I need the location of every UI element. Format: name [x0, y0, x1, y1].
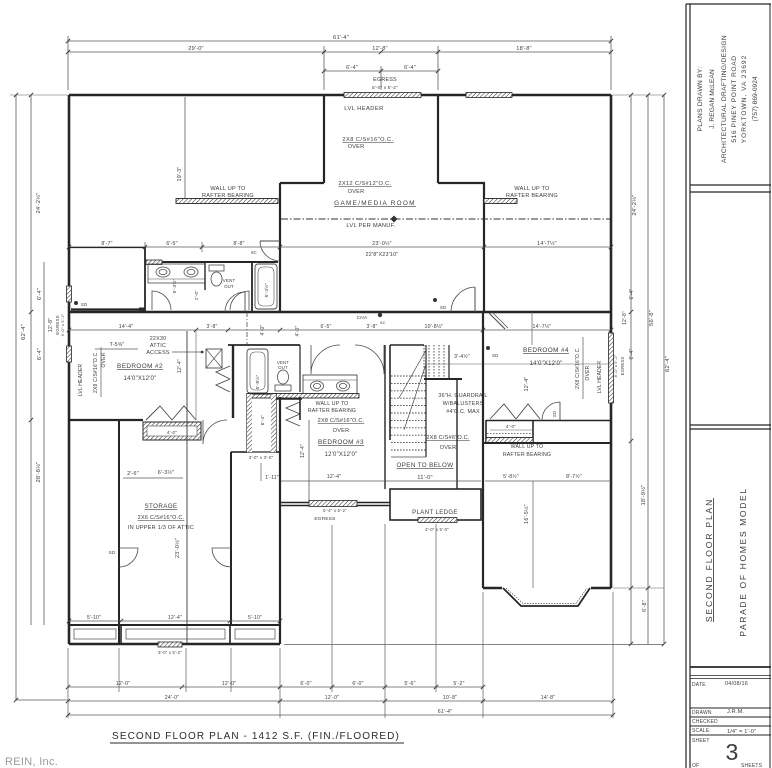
smoke detector bedroom4	[486, 346, 490, 350]
bedroom2 bottom wall	[69, 419, 143, 421]
bedroom2 door arc	[203, 420, 227, 444]
door arc into right wing	[451, 287, 475, 312]
bedroom2 closet bifold vertical	[216, 366, 230, 392]
top wall	[69, 94, 611, 97]
svg-text:6'-0" x 5'-2": 6'-0" x 5'-2"	[60, 313, 65, 336]
svg-text:19'-3": 19'-3"	[177, 167, 183, 182]
svg-text:OVER: OVER	[585, 365, 591, 380]
angled door to stair hall	[489, 313, 505, 329]
attic access hatch square	[206, 349, 222, 368]
svg-text:62'-4": 62'-4"	[21, 324, 27, 340]
svg-text:(757) 869-0924: (757) 869-0924	[752, 76, 759, 121]
svg-text:12'-0": 12'-0"	[222, 681, 236, 687]
svg-text:36"H. GUARDRAIL: 36"H. GUARDRAIL	[438, 393, 487, 399]
svg-text:LVL PER MANUF.: LVL PER MANUF.	[346, 223, 395, 229]
svg-text:23'-0½": 23'-0½"	[372, 240, 392, 247]
svg-text:ACCESS: ACCESS	[146, 350, 170, 356]
svg-text:22'8"X23'10": 22'8"X23'10"	[366, 252, 399, 258]
left dimension lines	[15, 95, 17, 700]
door arc game room to attic room	[260, 240, 280, 242]
storage dim row	[123, 477, 183, 479]
svg-text:6'-4": 6'-4"	[404, 65, 416, 71]
window seat cabinet	[143, 422, 201, 440]
info rows	[690, 707, 771, 709]
svg-text:BEDROOM #4: BEDROOM #4	[523, 347, 569, 354]
svg-text:EGRESS: EGRESS	[620, 357, 625, 376]
svg-text:12'-4": 12'-4"	[168, 615, 182, 621]
double vanity	[303, 375, 357, 395]
rafter bearing wall hatch mid bath	[247, 394, 359, 399]
svg-text:5'-3½": 5'-3½"	[171, 279, 178, 294]
svg-text:12'-8": 12'-8"	[622, 311, 628, 325]
svg-text:WALL UP TO: WALL UP TO	[316, 401, 349, 407]
svg-text:12'0"X12'0": 12'0"X12'0"	[325, 452, 358, 458]
svg-text:5'-8½": 5'-8½"	[254, 375, 261, 390]
stair diagonal	[399, 350, 426, 398]
bath door arcs	[152, 291, 171, 310]
top dimension row 1 (61'-4")	[68, 40, 611, 42]
svg-text:6'-5": 6'-5"	[166, 241, 177, 247]
svg-text:6'-4": 6'-4"	[629, 349, 635, 360]
svg-text:CHECKED: CHECKED	[692, 719, 718, 725]
svg-text:24'-2½": 24'-2½"	[631, 194, 638, 215]
svg-text:1'-11": 1'-11"	[265, 475, 279, 481]
left room dim row	[69, 246, 280, 248]
svg-text:OVER: OVER	[101, 352, 107, 367]
svg-text:SD: SD	[109, 550, 116, 555]
svg-text:WALL UP TO: WALL UP TO	[514, 186, 550, 192]
svg-text:ARCHITECTURAL DRAFTING/DESIGN: ARCHITECTURAL DRAFTING/DESIGN	[721, 35, 728, 163]
svg-text:DATE: DATE	[692, 682, 706, 688]
svg-text:4'-0": 4'-0"	[506, 424, 517, 430]
svg-text:2'-0": 2'-0"	[194, 290, 199, 300]
svg-text:VENT: VENT	[223, 278, 236, 283]
svg-text:2X8 C/S#16"O.C.: 2X8 C/S#16"O.C.	[342, 137, 393, 143]
svg-text:12'-4": 12'-4"	[300, 444, 306, 458]
svg-text:18'-8": 18'-8"	[516, 46, 531, 52]
svg-text:EGRESS: EGRESS	[314, 516, 335, 522]
bottom right room walls	[482, 489, 484, 588]
closet dim 4-0	[490, 429, 533, 431]
svg-text:11'-0": 11'-0"	[417, 475, 433, 481]
svg-text:61'-4": 61'-4"	[438, 709, 452, 715]
svg-text:OUT: OUT	[224, 284, 234, 289]
bay window	[503, 588, 590, 606]
svg-text:PARADE OF HOMES MODEL: PARADE OF HOMES MODEL	[738, 487, 748, 636]
bottom dimension row 3 (61'-4")	[68, 714, 613, 716]
right wall	[610, 95, 613, 588]
door arc hall to bath	[225, 292, 245, 312]
svg-text:6'-0" x 5'-2": 6'-0" x 5'-2"	[372, 85, 398, 90]
svg-text:62'-4": 62'-4"	[665, 356, 671, 372]
svg-text:8'-8": 8'-8"	[233, 241, 244, 247]
svg-text:SHEET: SHEET	[692, 738, 710, 744]
svg-text:6'-3½": 6'-3½"	[158, 469, 174, 476]
svg-text:REIN, Inc.: REIN, Inc.	[5, 756, 58, 768]
svg-text:8C: 8C	[380, 320, 386, 325]
egress window hatch top wall	[344, 93, 421, 98]
svg-text:OPEN TO BELOW: OPEN TO BELOW	[397, 462, 454, 469]
svg-text:6'-4": 6'-4"	[37, 288, 43, 300]
svg-text:4'-0": 4'-0"	[295, 326, 301, 337]
svg-text:56'-8": 56'-8"	[649, 310, 655, 326]
window sills bottom	[74, 629, 116, 639]
svg-text:SHEETS: SHEETS	[741, 763, 763, 768]
rafter wall bedroom4 hatch	[486, 438, 533, 443]
svg-text:ATTIC: ATTIC	[150, 343, 166, 349]
svg-text:2X8 C/S#6"O.C.: 2X8 C/S#6"O.C.	[426, 435, 470, 441]
hall dimension row	[69, 329, 611, 331]
vanity with two sinks	[148, 264, 205, 283]
linen closet top-left	[69, 247, 145, 249]
svg-text:2X12 C/S#12"O.C.: 2X12 C/S#12"O.C.	[338, 181, 391, 187]
svg-text:28'-8½": 28'-8½"	[35, 461, 42, 482]
svg-text:STORAGE: STORAGE	[145, 503, 178, 510]
svg-text:J. REGAN McLEAN: J. REGAN McLEAN	[709, 69, 716, 129]
svg-text:4'-0": 4'-0"	[167, 430, 177, 435]
svg-text:CHA: CHA	[357, 315, 368, 321]
svg-text:OVER: OVER	[440, 445, 457, 451]
bottom dimension row 1	[68, 686, 483, 688]
svg-text:5'-2": 5'-2"	[453, 681, 464, 687]
svg-text:LVL HEADER: LVL HEADER	[597, 361, 603, 394]
svg-text:6'-4": 6'-4"	[260, 415, 266, 426]
svg-text:4'-0": 4'-0"	[260, 325, 266, 336]
main corridor wall	[69, 311, 611, 314]
smoke detector left wall	[74, 301, 78, 305]
svg-text:SD: SD	[81, 302, 88, 307]
svg-text:WALL UP TO: WALL UP TO	[511, 444, 544, 450]
svg-text:RAFTER BEARING: RAFTER BEARING	[503, 452, 551, 458]
svg-text:6'-4": 6'-4"	[346, 65, 358, 71]
svg-text:OVER: OVER	[348, 189, 365, 195]
bottom dim labels	[69, 620, 280, 622]
svg-text:YORKTOWN, VA 23692: YORKTOWN, VA 23692	[741, 55, 748, 143]
svg-text:3'-4½": 3'-4½"	[454, 353, 470, 360]
svg-text:2X8 C/S#16"O.C.: 2X8 C/S#16"O.C.	[575, 347, 581, 389]
toilet nook wall	[299, 345, 301, 392]
svg-text:14'-4": 14'-4"	[119, 324, 133, 330]
right dim extension lines bottom	[284, 644, 664, 646]
lvl line diamond marker	[390, 215, 397, 222]
svg-text:WALL UP TO: WALL UP TO	[210, 186, 246, 192]
svg-text:8C: 8C	[251, 250, 257, 255]
left wall window hatches	[67, 286, 72, 302]
svg-text:OVER: OVER	[333, 428, 350, 434]
svg-text:5'-8½": 5'-8½"	[503, 473, 519, 480]
svg-text:SD: SD	[440, 305, 447, 310]
svg-text:16'-5½": 16'-5½"	[523, 504, 530, 524]
svg-text:5'-4" x 5'-2": 5'-4" x 5'-2"	[323, 508, 347, 513]
game room dims	[280, 246, 484, 248]
storage west walls	[118, 420, 120, 644]
smoke detector game room	[433, 298, 437, 302]
bottom witness lines	[67, 648, 69, 718]
svg-text:14'0"X12'0": 14'0"X12'0"	[530, 361, 563, 367]
svg-text:3'-8": 3'-8"	[207, 324, 218, 330]
svg-text:04/08/16: 04/08/16	[725, 681, 748, 687]
svg-text:14'0"X12'0": 14'0"X12'0"	[124, 376, 157, 382]
svg-text:12'-4": 12'-4"	[177, 359, 183, 373]
hall centerline dash-dot	[246, 312, 248, 345]
svg-text:5'-10": 5'-10"	[248, 615, 262, 621]
svg-text:12'-8": 12'-8"	[372, 46, 387, 52]
tub top bath	[255, 264, 277, 309]
rafter bearing wall right	[484, 199, 517, 204]
svg-text:23'-0½": 23'-0½"	[174, 538, 181, 558]
svg-text:RAFTER BEARING: RAFTER BEARING	[506, 193, 558, 199]
dim row y=482	[281, 480, 481, 482]
bath door arcs from hall	[311, 345, 340, 374]
wall below closets	[483, 442, 611, 444]
svg-text:6'-0": 6'-0"	[352, 681, 363, 687]
svg-text:8'-7": 8'-7"	[101, 241, 112, 247]
svg-text:T-5⅝": T-5⅝"	[110, 342, 125, 348]
title block border	[685, 4, 687, 768]
svg-text:14'-7½": 14'-7½"	[537, 240, 557, 247]
bathroom top wall	[146, 261, 278, 263]
title block section separators	[690, 184, 771, 186]
svg-text:12'-4": 12'-4"	[524, 377, 530, 392]
closet bifold doors	[146, 406, 196, 420]
main lower wall bedroom3 south	[281, 502, 390, 504]
19'-3" witness line left attic	[184, 97, 186, 201]
svg-text:61'-4": 61'-4"	[333, 35, 349, 41]
game room alcove walls	[323, 95, 325, 183]
stair treads	[391, 375, 426, 377]
plant ledge	[390, 489, 481, 520]
svg-text:BEDROOM #3: BEDROOM #3	[318, 439, 364, 446]
svg-text:SD: SD	[552, 411, 557, 417]
bedroom4 door leaf and arc	[559, 402, 561, 420]
svg-text:SECOND FLOOR PLAN - 1412 S.F.: SECOND FLOOR PLAN - 1412 S.F. (FIN./FLOO…	[112, 731, 400, 742]
svg-text:SECOND FLOOR PLAN: SECOND FLOOR PLAN	[704, 498, 714, 622]
svg-text:14'-7½": 14'-7½"	[533, 323, 552, 330]
open to below boundary	[456, 378, 458, 489]
svg-text:LVL HEADER: LVL HEADER	[78, 364, 84, 397]
svg-text:6'-4": 6'-4"	[629, 289, 635, 300]
svg-text:12'-8": 12'-8"	[48, 318, 54, 332]
svg-text:EGRESS: EGRESS	[373, 77, 397, 83]
svg-text:3'-0" x 5'-0": 3'-0" x 5'-0"	[425, 527, 449, 532]
bedroom3 left wall	[299, 397, 301, 420]
lvl dashed line	[281, 218, 610, 220]
svg-text:5'-10": 5'-10"	[87, 615, 101, 621]
bedroom4 closet bifold	[490, 404, 540, 419]
stairwell walls	[389, 345, 391, 440]
svg-text:3'-0" x 5'-2": 3'-0" x 5'-2"	[158, 650, 182, 655]
svg-text:3'-0" x 3'-0": 3'-0" x 3'-0"	[249, 455, 274, 460]
svg-text:5'-6": 5'-6"	[404, 681, 415, 687]
svg-text:SCALE:: SCALE:	[692, 728, 711, 734]
svg-text:LVL HEADER: LVL HEADER	[344, 106, 383, 112]
bottom dimension row 2	[68, 700, 613, 702]
svg-text:2'-6": 2'-6"	[127, 471, 139, 477]
svg-text:2X8 C/S#16"O.C.: 2X8 C/S#16"O.C.	[318, 418, 365, 424]
bedroom3 closet	[272, 398, 302, 400]
bath hall wall	[232, 345, 234, 418]
bottom walls of left block	[69, 624, 280, 626]
svg-text:5'-3½": 5'-3½"	[263, 283, 270, 298]
svg-text:BEDROOM #2: BEDROOM #2	[117, 363, 163, 370]
partition walls bath	[204, 262, 206, 290]
svg-text:2X6 C/S#16"O.C.: 2X6 C/S#16"O.C.	[138, 515, 185, 521]
left wall	[68, 95, 71, 644]
svg-text:516 PINEY POINT ROAD: 516 PINEY POINT ROAD	[731, 55, 738, 142]
svg-text:SD: SD	[492, 353, 499, 358]
bedroom3 vertical dim	[308, 420, 310, 502]
svg-text:W/BALUSTERS: W/BALUSTERS	[443, 401, 484, 407]
dimension ticks	[66, 50, 70, 54]
svg-text:2X8 C/S#16"O.C.: 2X8 C/S#16"O.C.	[93, 351, 99, 393]
svg-text:12'-0": 12'-0"	[325, 695, 339, 701]
svg-text:#4'O.C. MAX: #4'O.C. MAX	[446, 409, 480, 415]
svg-text:PLANS DRAWN BY:: PLANS DRAWN BY:	[697, 67, 704, 132]
svg-text:OVER: OVER	[348, 144, 365, 150]
top dimension row 2	[68, 51, 611, 53]
svg-text:OUT: OUT	[278, 365, 288, 370]
svg-text:RAFTER BEARING: RAFTER BEARING	[308, 408, 356, 414]
svg-text:6'-8": 6'-8"	[642, 600, 648, 612]
right dimension lines	[630, 95, 632, 644]
svg-text:24'-2½": 24'-2½"	[35, 192, 42, 213]
upper stair flight vertical treads	[423, 345, 425, 378]
svg-text:6'-0": 6'-0"	[300, 681, 311, 687]
svg-text:14'-8": 14'-8"	[541, 695, 555, 701]
svg-text:24'-0": 24'-0"	[165, 695, 179, 701]
svg-text:10'-8": 10'-8"	[443, 695, 457, 701]
toilet	[209, 265, 224, 271]
svg-text:12'-4": 12'-4"	[327, 474, 341, 480]
rafter bearing wall left	[176, 199, 278, 204]
bedroom4 west wall	[482, 312, 484, 489]
svg-text:29'-0": 29'-0"	[188, 46, 203, 52]
top dimension row 3 (6'-4" 6'-4")	[324, 70, 438, 72]
svg-text:OF: OF	[692, 763, 699, 768]
hatched closet	[247, 394, 276, 452]
svg-text:10'-8½": 10'-8½"	[425, 323, 444, 330]
egress window bottom	[158, 642, 182, 647]
svg-text:PLANT LEDGE: PLANT LEDGE	[412, 510, 458, 516]
svg-text:RAFTER BEARING: RAFTER BEARING	[202, 193, 254, 199]
storage door arcs	[119, 548, 138, 567]
svg-text:12'-0": 12'-0"	[116, 681, 130, 687]
svg-text:6'-4": 6'-4"	[37, 348, 43, 360]
svg-text:IN UPPER 1/3 OF ATTIC: IN UPPER 1/3 OF ATTIC	[128, 525, 194, 531]
svg-text:6'-5": 6'-5"	[321, 324, 332, 330]
svg-text:DRAWN: DRAWN	[692, 710, 712, 716]
svg-text:8'-7½": 8'-7½"	[566, 473, 582, 480]
middle tub	[247, 349, 268, 393]
svg-text:1/4" = 1'-0": 1/4" = 1'-0"	[727, 729, 756, 735]
svg-text:22X30: 22X30	[150, 336, 167, 342]
svg-text:3'-8": 3'-8"	[367, 324, 378, 330]
svg-text:3: 3	[726, 739, 739, 765]
svg-text:GAME/MEDIA ROOM: GAME/MEDIA ROOM	[334, 200, 416, 207]
svg-text:18'-9½": 18'-9½"	[640, 484, 647, 505]
svg-text:J.R.M.: J.R.M.	[727, 709, 744, 715]
